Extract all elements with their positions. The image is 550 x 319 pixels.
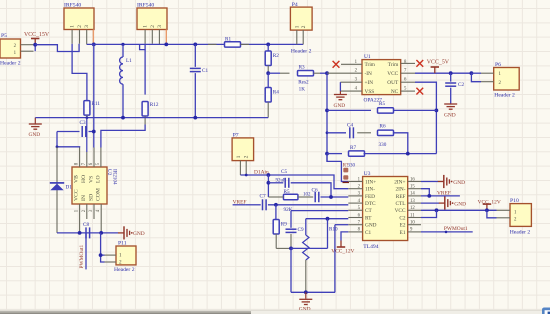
node R1 right <box>266 43 270 47</box>
pins of P10 <box>497 209 511 211</box>
svg-text:VSS: VSS <box>365 89 375 95</box>
svg-text:R9: R9 <box>281 222 287 228</box>
svg-text:U3: U3 <box>364 171 371 177</box>
svg-text:1: 1 <box>70 25 76 28</box>
connector P7 (Header 2) <box>232 138 254 161</box>
resistor R8 zigzag <box>305 219 307 235</box>
svg-text:IN: IN <box>81 195 87 201</box>
pin U1-4 to GND <box>340 90 362 92</box>
svg-text:C3: C3 <box>80 120 86 126</box>
node C2 tap <box>449 71 453 75</box>
pins of P6 <box>481 72 494 74</box>
svg-text:E1: E1 <box>400 230 406 236</box>
wire P6 pin2 tie <box>471 73 481 82</box>
node U2 pin4 <box>99 231 103 235</box>
svg-text:P10: P10 <box>510 198 519 204</box>
svg-text:2: 2 <box>119 259 122 265</box>
op IC U2 IR2104 <box>72 167 107 204</box>
svg-text:R5: R5 <box>379 101 385 107</box>
svg-text:R2: R2 <box>273 53 279 59</box>
svg-text:3: 3 <box>157 25 163 28</box>
svg-text:COM: COM <box>96 188 102 201</box>
svg-text:P5: P5 <box>1 33 7 39</box>
svg-text:HO: HO <box>81 175 87 183</box>
svg-text:R7: R7 <box>350 145 356 151</box>
pin U1-3 to GND <box>340 81 362 83</box>
wire R2 node to R3 <box>268 72 280 74</box>
node REF <box>427 194 431 198</box>
wire gate node down to R11 jog <box>72 44 87 100</box>
node R11 / U2 pin7 <box>86 116 89 119</box>
ground symbol U1 input <box>339 82 341 91</box>
pins of P4 to bus <box>296 30 298 44</box>
node RT branch <box>326 217 330 221</box>
window scrollbar thumb <box>0 311 251 314</box>
svg-text:C2: C2 <box>399 215 406 221</box>
svg-text:DTC: DTC <box>365 201 376 207</box>
wire R12 bottom crossing bus to U2 pin5 <box>144 116 146 125</box>
svg-text:GND: GND <box>454 202 466 208</box>
wire low-side node <box>57 232 118 234</box>
wire top bus <box>87 43 304 45</box>
ground bar U3 pin13 <box>421 202 439 204</box>
node VCC_15V junction <box>33 43 37 47</box>
wire VCC pin12 to P10 <box>421 209 497 211</box>
drain tab pin of Q2 (orange) <box>165 30 167 45</box>
svg-text:Trim: Trim <box>365 62 376 68</box>
svg-text:SD: SD <box>88 194 94 201</box>
svg-text:VCC: VCC <box>74 189 80 201</box>
capacitor C2 <box>450 73 452 81</box>
pin U1-2 wire from R3 <box>327 72 362 74</box>
svg-text:REF: REF <box>396 194 406 200</box>
svg-text:VCC: VCC <box>395 208 406 214</box>
svg-text:E2: E2 <box>400 223 406 229</box>
svg-text:GND: GND <box>334 103 346 109</box>
connector P5 (Header 2) <box>0 39 21 58</box>
svg-text:C8: C8 <box>83 222 89 228</box>
svg-text:P6: P6 <box>495 62 501 68</box>
node C5 branch <box>267 181 271 185</box>
svg-text:GND: GND <box>133 231 145 237</box>
node P11 pin1 <box>99 253 103 257</box>
capacitor C1 <box>193 43 197 47</box>
svg-text:1: 1 <box>295 25 301 28</box>
svg-text:P7: P7 <box>233 133 239 139</box>
svg-text:OUT: OUT <box>387 80 399 86</box>
svg-text:VREF: VREF <box>437 191 451 197</box>
wire join to RT drop <box>291 247 328 249</box>
svg-text:FED: FED <box>365 194 375 200</box>
pins of P7 <box>239 161 241 175</box>
svg-text:IRF540: IRF540 <box>64 3 81 9</box>
svg-text:VB: VB <box>74 175 80 183</box>
svg-text:VCC_12V: VCC_12V <box>331 248 354 254</box>
svg-text:C1: C1 <box>365 230 372 236</box>
node D1Ain branch <box>267 173 271 177</box>
pins of Q1 <box>71 30 73 44</box>
svg-text:+IN: +IN <box>365 80 374 86</box>
svg-text:Header 2: Header 2 <box>510 230 531 236</box>
node R6/R7 join <box>406 152 410 156</box>
node R2 bottom <box>266 71 270 75</box>
svg-text:Trim: Trim <box>388 62 399 68</box>
wire REF out <box>421 195 460 197</box>
svg-text:1IN+: 1IN+ <box>365 179 376 185</box>
resistor R9 <box>275 205 277 220</box>
svg-text:3: 3 <box>84 25 90 28</box>
svg-text:VS: VS <box>88 176 94 183</box>
controller U3 TL494 <box>363 177 408 241</box>
node pin11 tie <box>435 208 439 212</box>
svg-text:R10: R10 <box>329 227 338 233</box>
svg-text:IRF540: IRF540 <box>137 3 154 9</box>
pin U3-8 C1 to VCC_12V <box>341 232 348 241</box>
svg-text:2: 2 <box>301 25 307 28</box>
node VREF/R9 <box>274 203 278 207</box>
svg-text:C7: C7 <box>260 193 266 199</box>
wire P5 pins tied <box>34 45 36 52</box>
power port VCC_12V bottom <box>340 241 342 248</box>
svg-text:C2: C2 <box>458 82 464 88</box>
svg-text:Header 2: Header 2 <box>494 93 515 99</box>
node Q2 tab on bus <box>164 43 168 47</box>
svg-text:P11: P11 <box>118 241 127 247</box>
transistor Q2 IRF540 <box>137 8 167 30</box>
node OUT/R5 <box>435 109 439 113</box>
node P7 pin2 <box>245 174 248 177</box>
node ground rail <box>304 290 308 294</box>
svg-text:1: 1 <box>143 25 149 28</box>
svg-text:2: 2 <box>244 155 250 158</box>
wire U3 pin15 to REF <box>421 189 429 196</box>
svg-text:1: 1 <box>236 155 242 158</box>
svg-text:VCC: VCC <box>387 71 398 77</box>
svg-text:Header 2: Header 2 <box>0 61 21 67</box>
resistor R11 <box>84 101 90 116</box>
svg-text:PWMOut1: PWMOut1 <box>444 226 468 232</box>
wire inverting node vertical <box>326 73 328 161</box>
wire C5 right to FED <box>291 183 331 197</box>
drain tab pin of Q1 (orange) <box>92 30 94 45</box>
window corner button <box>542 308 550 316</box>
node C1 bottom <box>193 116 197 120</box>
svg-text:-IN: -IN <box>365 71 373 77</box>
wire P10 pin2 tie <box>487 210 497 218</box>
node C4 left <box>326 131 329 134</box>
node U2 pin8 tie <box>56 145 59 148</box>
connector P6 (Header 2) <box>494 68 520 91</box>
wire VCC_15V to gate of Q1 <box>35 44 79 52</box>
node P10 branch <box>485 208 489 212</box>
pins of Q2 <box>144 30 146 44</box>
pins U2 bottom <box>79 204 81 233</box>
svg-text:GND: GND <box>453 180 465 186</box>
connector P11 (Header 2) <box>116 246 136 265</box>
wire RT <box>306 218 349 220</box>
resistor R12 <box>142 101 148 116</box>
svg-text:CT: CT <box>365 208 373 214</box>
wire CT <box>291 210 348 212</box>
inductor L1 <box>121 43 124 46</box>
svg-text:330: 330 <box>379 142 387 148</box>
node R3 output <box>325 71 329 75</box>
svg-text:2: 2 <box>77 25 83 28</box>
svg-text:R12: R12 <box>150 102 159 108</box>
ground symbol at mid bus left <box>34 118 36 124</box>
svg-text:C1: C1 <box>202 68 208 74</box>
svg-text:TL494: TL494 <box>363 244 379 250</box>
wire Q2 gate node down to R12 <box>144 50 146 95</box>
svg-text:D1: D1 <box>66 185 73 191</box>
pin U1-7 VCC wire <box>401 72 415 74</box>
resistor R4 <box>267 73 269 87</box>
svg-text:U1: U1 <box>364 54 371 60</box>
wire branch down <box>267 175 269 197</box>
svg-text:GND: GND <box>444 113 456 119</box>
svg-text:1IN-: 1IN- <box>365 187 375 193</box>
ground symbol C2 <box>444 103 457 105</box>
svg-text:R4: R4 <box>273 90 279 96</box>
op-amp U1 OPA227 <box>362 60 401 95</box>
svg-text:2IN+: 2IN+ <box>394 179 405 185</box>
svg-text:Header 2: Header 2 <box>291 49 312 55</box>
svg-text:CTL: CTL <box>395 201 405 207</box>
connector P4 (Header 2) <box>290 7 312 30</box>
ground symbol bottom <box>305 292 307 299</box>
svg-text:VCC_15V: VCC_15V <box>24 32 50 38</box>
resistor R2 <box>267 44 269 51</box>
node P6 branch <box>470 71 474 75</box>
node R7 left <box>325 152 329 156</box>
wire down to ground rail <box>290 248 292 292</box>
node R5 left <box>325 109 329 113</box>
pins of P11 <box>105 254 117 256</box>
capacitor C9 <box>290 211 292 228</box>
ground bar near U2 <box>118 232 124 234</box>
svg-text:L1: L1 <box>126 58 132 64</box>
svg-text:330: 330 <box>348 163 356 168</box>
connector P10 (Header 2) <box>510 204 531 227</box>
svg-text:C5: C5 <box>281 169 287 175</box>
node U2 pin1 <box>78 231 82 235</box>
net label PWMOut1 vertical <box>85 233 87 270</box>
diode D1 <box>56 147 58 233</box>
pins U2 top <box>79 148 81 168</box>
transistor Q1 IRF540 <box>64 8 94 30</box>
svg-text:PWMOut1: PWMOut1 <box>79 244 85 268</box>
svg-text:GND: GND <box>29 132 41 138</box>
svg-text:LO: LO <box>96 175 102 183</box>
wire PWMOut1 from pin9 <box>421 231 473 233</box>
node Q1 drain <box>92 43 96 47</box>
svg-text:GND: GND <box>365 223 377 229</box>
svg-text:1: 1 <box>119 252 122 258</box>
wire R6 right down to R7 line <box>394 133 408 154</box>
svg-text:2: 2 <box>150 25 156 28</box>
node L1 bottom <box>121 116 125 120</box>
svg-text:NC: NC <box>391 89 399 95</box>
wire VCC rail to U2 pin8 <box>57 132 80 148</box>
node C3 right on drain rail <box>92 130 96 134</box>
pin U1-1 with no-ERC <box>341 63 362 65</box>
svg-text:C9: C9 <box>298 227 304 233</box>
svg-text:R3: R3 <box>299 65 305 71</box>
wire gate tap jog for Q2 <box>140 44 146 50</box>
pin U1-5 with no-ERC <box>401 90 415 92</box>
pin U1-8 with no-ERC <box>401 62 415 64</box>
svg-text:IR2104: IR2104 <box>112 169 118 185</box>
node FED join <box>329 195 333 199</box>
svg-text:VCC_5V: VCC_5V <box>427 60 450 66</box>
wire ground rail <box>291 291 335 293</box>
wire C6 right to FED pin <box>321 196 349 198</box>
wire P11 pins to low-side node <box>101 255 105 262</box>
wire D1Ain to U3 pin2 <box>240 175 348 189</box>
pin U1-6 OUT wire <box>401 81 415 83</box>
svg-text:P4: P4 <box>292 2 298 8</box>
wire inverting node to U3 pin1 <box>327 154 348 182</box>
svg-text:R11: R11 <box>92 101 101 107</box>
svg-text:Header 2: Header 2 <box>114 267 135 273</box>
svg-text:2IN-: 2IN- <box>395 187 405 193</box>
window scrollbar track <box>0 310 550 314</box>
svg-text:RT: RT <box>365 215 372 221</box>
svg-text:Res2: Res2 <box>298 80 309 86</box>
wire Q1 drain rail down to U2 pin6 <box>93 44 95 147</box>
wire RT drop <box>327 219 329 249</box>
wire mid bus <box>35 117 268 119</box>
wire pin11 jog <box>421 210 437 217</box>
svg-text:U2: U2 <box>106 169 112 176</box>
ground bar U3 pin16 <box>421 181 438 183</box>
svg-text:R6: R6 <box>380 124 386 130</box>
node R9/C9 ground join <box>289 247 293 251</box>
pin U3-7 GND wire down <box>335 224 348 226</box>
svg-text:1K: 1K <box>299 87 306 93</box>
